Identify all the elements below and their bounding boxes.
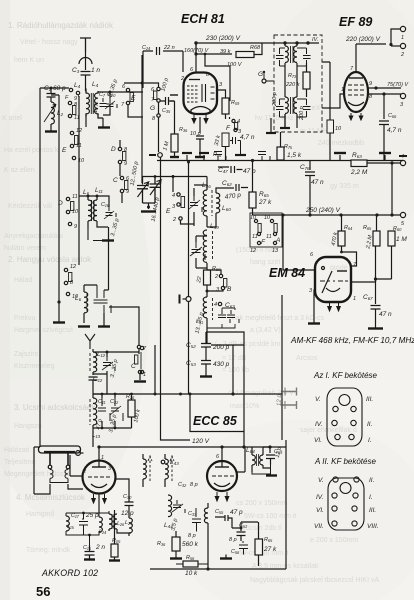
switch contact bank D 11/10/9 <box>66 197 69 200</box>
switch contact F below R59 <box>229 117 231 119</box>
wire: 100V node <box>205 54 230 101</box>
svg-text:L₂₉: L₂₉ <box>125 520 133 526</box>
caps C63 pair <box>218 310 230 323</box>
svg-text:200 p: 200 p <box>272 92 278 107</box>
svg-text:L₄: L₄ <box>74 82 81 89</box>
svg-text:11: 11 <box>252 234 258 240</box>
junction of L4 to grid line <box>86 55 144 183</box>
capacitor C59 <box>266 447 275 465</box>
resistor R36 1M <box>171 134 178 152</box>
svg-text:2: 2 <box>214 274 218 280</box>
svg-text:III.: III. <box>366 396 373 403</box>
cap on bus <box>214 152 226 161</box>
svg-text:4,7 n: 4,7 n <box>240 134 255 141</box>
svg-text:VI.: VI. <box>316 507 324 514</box>
coil L24 <box>99 517 102 532</box>
wire: triode grid left pin <box>170 94 178 96</box>
IF1 primary coil pair <box>285 46 288 63</box>
ground end of bus <box>402 160 404 162</box>
svg-text:22 n: 22 n <box>163 45 175 51</box>
svg-text:C₅₂: C₅₂ <box>186 342 196 349</box>
wire: vertical x190 <box>190 394 244 432</box>
svg-text:1: 1 <box>341 87 344 93</box>
svg-text:R₇₃: R₇₃ <box>288 73 297 79</box>
wire: vertical x155 <box>154 345 156 394</box>
socket I pinout <box>327 388 362 446</box>
mid distribution bus <box>157 160 403 162</box>
wire terminal4 node down to 250V bus <box>391 163 393 215</box>
svg-text:R₆₅: R₆₅ <box>363 225 372 231</box>
svg-text:C₃: C₃ <box>72 67 80 74</box>
svg-text:4: 4 <box>401 154 404 160</box>
svg-text:Hangszó: Hangszó <box>14 423 42 430</box>
svg-text:16 p: 16 p <box>93 102 99 113</box>
terminal 2 <box>400 43 405 48</box>
svg-text:47 n: 47 n <box>311 179 324 186</box>
ground mid bottom <box>220 557 232 559</box>
svg-text:C: C <box>131 363 136 370</box>
svg-text:8 p: 8 p <box>229 537 237 543</box>
gang common ground <box>147 206 150 209</box>
svg-text:75(70) V: 75(70) V <box>387 82 409 88</box>
wire: C34 down to band switch <box>142 51 144 88</box>
svg-text:R68: R68 <box>250 45 261 51</box>
svg-text:200 p: 200 p <box>299 106 305 121</box>
EF89 grid dashes <box>348 85 364 95</box>
ground under L4 <box>98 126 110 128</box>
switch contact bank 12/11/10 <box>70 131 73 134</box>
svg-text:C: C <box>113 177 118 184</box>
svg-text:8 p: 8 p <box>190 482 198 488</box>
svg-text:R₆₄: R₆₄ <box>344 225 352 231</box>
svg-text:I.: I. <box>368 437 372 444</box>
svg-text:R₃₆: R₃₆ <box>157 541 166 547</box>
svg-text:K ariel: K ariel <box>2 115 22 122</box>
svg-text:R₅₀: R₅₀ <box>212 266 221 272</box>
svg-text:C₄₇: C₄₇ <box>218 167 228 174</box>
capacitor C17 bars <box>79 518 88 533</box>
svg-text:Arcsos: Arcsos <box>296 355 318 362</box>
svg-text:L₄₉: L₄₉ <box>210 223 219 230</box>
wire EM84 grid from R84 via loop <box>342 252 357 266</box>
ground under L6 <box>88 229 103 241</box>
svg-text:G: G <box>258 71 263 78</box>
triode2 arrows <box>215 492 229 501</box>
svg-text:Zajszint: Zajszint <box>14 351 38 358</box>
svg-text:12 p: 12 p <box>277 394 283 406</box>
ground under L64 <box>266 474 277 476</box>
svg-text:EM 84: EM 84 <box>269 266 305 280</box>
svg-text:Teljesítmé: Teljesítmé <box>4 459 36 466</box>
svg-text:L₆₀: L₆₀ <box>222 205 231 212</box>
svg-text:L₁₁: L₁₁ <box>95 187 103 194</box>
svg-text:Hálad: Hálad <box>14 277 32 284</box>
svg-text:2: 2 <box>172 217 176 223</box>
wires of L15 block <box>66 511 109 545</box>
triode1 grid dashes <box>88 476 110 478</box>
EF89 top lead pin7 <box>355 44 357 72</box>
svg-text:Anyrekgacsanálási: Anyrekgacsanálási <box>4 233 63 240</box>
svg-text:L₁₅: L₁₅ <box>67 524 75 530</box>
svg-text:C₁₆: C₁₆ <box>101 202 110 208</box>
svg-text:27 k: 27 k <box>263 546 277 553</box>
trimmer beside L48 <box>190 196 202 212</box>
wires L13 block <box>93 394 132 428</box>
svg-text:11: 11 <box>74 115 80 121</box>
wire: left vertical bus <box>39 88 41 447</box>
wire: IF out to EF89 grid <box>322 62 330 120</box>
svg-text:10: 10 <box>264 215 271 221</box>
EF89 anode bar <box>349 77 363 79</box>
svg-text:2: 2 <box>180 76 184 82</box>
gang top wire <box>143 177 208 186</box>
svg-text:C₃₀: C₃₀ <box>123 494 132 500</box>
svg-text:V.: V. <box>318 477 324 484</box>
coil L13 <box>93 398 97 425</box>
svg-text:230 (200) V: 230 (200) V <box>205 35 241 42</box>
svg-text:11: 11 <box>266 234 272 240</box>
svg-text:(150 m-il nak: (150 m-il nak <box>236 247 277 254</box>
svg-text:hang szét: hang szét <box>250 259 280 266</box>
svg-text:1: 1 <box>353 296 356 302</box>
ground under ECH81 <box>195 156 205 158</box>
svg-text:430 p: 430 p <box>213 361 230 368</box>
wire from C52 to right vertical <box>206 332 244 447</box>
EF89 cathode arc <box>348 102 364 106</box>
capacitor C35 100p <box>161 97 175 105</box>
svg-text:= 100 kb: = 100 kb <box>222 367 249 374</box>
FM dipole big T antenna <box>44 451 75 453</box>
node dot on HT bus <box>194 41 197 44</box>
ground under C53 <box>200 375 212 377</box>
120V bus of ECC85 <box>166 446 286 448</box>
trimmer left of L49 <box>192 242 206 260</box>
svg-text:C₆₆: C₆₆ <box>388 113 397 119</box>
svg-text:IV.: IV. <box>316 494 324 501</box>
AM antenna symbol <box>80 38 91 52</box>
switch E 4/3/2 oscillator <box>177 193 180 196</box>
svg-text:250 (240) V: 250 (240) V <box>305 207 341 214</box>
tube ECH81 envelope <box>184 73 218 115</box>
switch contacts D 8/9 right col <box>118 147 121 150</box>
svg-text:C₁₅: C₁₅ <box>83 545 92 551</box>
terminal 5 <box>400 212 405 217</box>
wire from triode1 to C30 <box>115 479 130 496</box>
svg-text:B: B <box>227 286 232 293</box>
switch contact E 6/7 <box>126 88 129 91</box>
svg-text:III.: III. <box>369 507 376 514</box>
caps beside L8 <box>94 285 105 318</box>
svg-text:11: 11 <box>72 194 78 200</box>
svg-text:ECC 85: ECC 85 <box>193 414 238 428</box>
svg-text:4. Mcsalmiszlúcsok: 4. Mcsalmiszlúcsok <box>16 493 86 502</box>
svg-text:Hargmel szlvégcsé: Hargmel szlvégcsé <box>14 327 73 334</box>
svg-text:Nagybblágcsak jalcskel tbcsezc: Nagybblágcsak jalcskel tbcsezcsl HIKI vA <box>250 577 379 584</box>
svg-text:gy 335 m: gy 335 m <box>330 183 359 190</box>
ECH81 cathode arrows <box>192 115 208 123</box>
trimmer C20 <box>107 98 118 108</box>
svg-text:Hamgmő: Hamgmő <box>26 511 55 518</box>
dashed IF transformer box <box>274 35 322 132</box>
wire: antenna node into coil block <box>40 87 69 89</box>
trimmer right of L44 <box>173 500 185 513</box>
capacitor C34 22n <box>143 47 183 55</box>
svg-text:R₅₉: R₅₉ <box>231 100 240 106</box>
svg-text:3. Ucsmi adcskolcsáek: 3. Ucsmi adcskolcsáek <box>14 403 96 412</box>
svg-text:1 n: 1 n <box>91 67 100 74</box>
terminal at left of ECC85 <box>76 451 81 456</box>
ground under R38 <box>170 557 182 559</box>
svg-text:II.: II. <box>367 421 373 428</box>
EM84 target bar <box>337 270 347 272</box>
EM84 grid dashes <box>320 280 348 282</box>
svg-text:II.: II. <box>369 477 375 484</box>
triode2 cathode arc <box>214 483 230 487</box>
long mid horizontal wire <box>93 393 282 395</box>
svg-text:D: D <box>111 146 116 153</box>
svg-text:L₆₄: L₆₄ <box>246 447 255 454</box>
svg-text:2,2 M: 2,2 M <box>350 169 368 176</box>
switch contact 6/7 at grid <box>142 83 159 87</box>
ground stub on bus (right) <box>339 155 341 160</box>
switch block F/A <box>250 213 282 247</box>
svg-text:C₃₂: C₃₂ <box>178 482 187 488</box>
svg-text:VIII.: VIII. <box>367 523 379 530</box>
svg-text:2: 2 <box>82 469 86 475</box>
ground under switch C <box>134 380 146 382</box>
svg-text:IV.: IV. <box>312 37 319 43</box>
wire EM84 right pin 1 <box>351 279 376 282</box>
svg-text:L₄₃: L₄₃ <box>170 459 179 466</box>
grounds under L8 <box>78 325 90 327</box>
coil L44 <box>168 495 172 517</box>
triode1 anode bar <box>92 466 106 468</box>
svg-text:L₂₆: L₂₆ <box>117 521 125 527</box>
wire left edge to dipole <box>34 446 40 448</box>
resistor R68 <box>236 52 254 58</box>
svg-text:VII.: VII. <box>314 523 324 530</box>
svg-text:R₄₆: R₄₆ <box>213 152 222 158</box>
svg-text:R₆₅: R₆₅ <box>259 191 269 198</box>
svg-text:4: 4 <box>214 302 217 308</box>
svg-text:ECH 81: ECH 81 <box>181 12 225 26</box>
switch contact 4 / C63 <box>218 302 221 305</box>
coil L15 <box>66 516 69 531</box>
tube EM84 envelope <box>315 257 351 302</box>
tube EF89 envelope <box>344 72 368 112</box>
svg-text:2 n: 2 n <box>95 544 105 551</box>
triode1 top lead <box>98 447 100 461</box>
switch contact bank 8/11 <box>68 101 71 104</box>
ECH81 cathode arc <box>191 107 210 114</box>
svg-text:R₀₅: R₀₅ <box>112 538 121 544</box>
svg-text:12: 12 <box>70 264 76 270</box>
ground under L2 <box>45 130 57 132</box>
svg-text:240 mezkodbb: 240 mezkodbb <box>318 140 364 147</box>
svg-text:C₂₄: C₂₄ <box>142 45 150 51</box>
wires dipole to triode <box>34 447 83 494</box>
ECC85 triode 2 envelope <box>207 461 237 491</box>
IF1 secondary caps 200p <box>276 99 284 117</box>
svg-text:Megengedett hálózati: Megengedett hálózati <box>4 471 71 478</box>
coil mid small <box>204 508 208 523</box>
svg-text:22: 22 <box>196 276 203 284</box>
svg-text:10: 10 <box>78 158 85 164</box>
svg-text:hem K un: hem K un <box>14 57 44 64</box>
switch contacts C 6/9 <box>120 176 123 179</box>
ground stub on bus (2) <box>203 155 205 160</box>
svg-text:R₆₅: R₆₅ <box>264 537 273 543</box>
wires inside IF box <box>285 43 307 128</box>
svg-text:A II. KF bekötése: A II. KF bekötése <box>314 457 376 466</box>
svg-text:nak megfelelő feszt a 3 kΩ-cs: nak megfelelő feszt a 3 kΩ-cs <box>232 315 324 322</box>
svg-text:11: 11 <box>76 143 82 149</box>
svg-text:EF 89: EF 89 <box>339 15 372 29</box>
bottom bus ECC85 <box>150 568 286 570</box>
ground under C87 <box>368 327 383 329</box>
svg-text:9: 9 <box>126 189 129 195</box>
svg-text:C₅₆: C₅₆ <box>231 549 240 555</box>
svg-text:9: 9 <box>74 224 77 230</box>
transformer L26 <box>109 514 112 529</box>
svg-text:47 p: 47 p <box>230 509 243 516</box>
FM dipole small <box>85 334 95 349</box>
socket II pinout <box>328 477 364 530</box>
wire: top HT bus 230V <box>196 42 319 44</box>
wires L12 block <box>93 307 139 374</box>
trimmer C16 <box>106 207 117 217</box>
svg-text:1: 1 <box>143 372 146 378</box>
svg-text:120 V: 120 V <box>192 438 210 445</box>
svg-text:10: 10 <box>250 215 257 221</box>
svg-text:Frekvu: Frekvu <box>14 315 36 322</box>
svg-text:10: 10 <box>335 126 342 132</box>
svg-text:Tömeg: mlndk: Tömeg: mlndk <box>26 547 71 554</box>
EM84 cathode arrows <box>328 303 341 311</box>
svg-text:R₅₆: R₅₆ <box>186 555 195 561</box>
wire EM84 left pin to ground <box>314 290 315 323</box>
wire 250V to EM84 <box>283 215 316 270</box>
svg-text:V.: V. <box>315 396 321 403</box>
wires around L48 <box>181 185 208 227</box>
switch contact F9 <box>69 88 72 91</box>
svg-text:4: 4 <box>172 193 175 199</box>
ground left bus <box>53 321 65 323</box>
resistor R65 27k <box>249 192 256 208</box>
svg-text:68 p: 68 p <box>53 85 66 92</box>
wire triode1 cathode down <box>98 494 100 513</box>
svg-text:C₅₅: C₅₅ <box>215 509 224 515</box>
svg-text:Hálózati: Hálózati <box>4 447 30 454</box>
svg-text:560 k: 560 k <box>182 541 199 548</box>
tuning gang varcap AM <box>137 177 148 204</box>
svg-text:G: G <box>150 105 155 112</box>
svg-text:2: 2 <box>400 52 404 58</box>
IF1 tuning caps <box>276 48 284 66</box>
svg-text:12 p: 12 p <box>121 510 134 517</box>
EM84 cathode arc <box>326 288 340 292</box>
wire: grid leak to ground <box>170 95 178 157</box>
svg-text:e 200 x 150mm: e 200 x 150mm <box>310 537 358 544</box>
coil L29 <box>129 518 132 533</box>
IF1 secondary coil pair <box>285 97 288 114</box>
svg-text:I.: I. <box>369 494 373 501</box>
svg-text:R₃₆: R₃₆ <box>179 127 188 133</box>
terminal 1 <box>400 26 405 31</box>
svg-text:9: 9 <box>124 161 127 167</box>
wire C51 column <box>232 522 259 541</box>
capacitor C88 4,7n <box>379 94 389 161</box>
svg-text:AKKORD 102: AKKORD 102 <box>41 568 98 578</box>
ECC85 triode 1 envelope <box>83 461 116 494</box>
resistor R75 1,5k <box>277 147 284 160</box>
svg-text:1 M: 1 M <box>396 236 407 243</box>
svg-text:10: 10 <box>72 209 79 215</box>
EF89 cathode arrows <box>349 113 363 120</box>
svg-text:Klszrmeteleg: Klszrmeteleg <box>14 363 55 370</box>
resistor R46 <box>222 133 229 147</box>
phono terminal <box>186 297 191 302</box>
svg-text:12: 12 <box>250 248 256 254</box>
triode2 top lead <box>221 447 223 462</box>
svg-text:100 V: 100 V <box>227 62 243 68</box>
terminal 3 <box>400 93 405 98</box>
resistor R73 220k <box>303 72 310 89</box>
svg-text:R₆₃: R₆₃ <box>352 152 362 159</box>
svg-text:sajer ehrnkeltlak d: sajer ehrnkeltlak d <box>300 427 357 434</box>
svg-text:1: 1 <box>101 455 104 461</box>
svg-text:Az I. KF bekötése: Az I. KF bekötése <box>313 371 378 380</box>
svg-text:D: D <box>58 200 63 207</box>
ground feet of IF box <box>280 127 290 129</box>
ground stub on bus (far right) <box>384 155 386 160</box>
wire R83 to terminal 4 <box>367 162 400 164</box>
svg-text:47 n: 47 n <box>379 311 392 318</box>
switch contact bank 12/11/8/10 low <box>64 268 67 271</box>
coil L60 <box>216 193 220 213</box>
svg-text:C₁: C₁ <box>44 85 51 92</box>
svg-text:E: E <box>166 208 171 215</box>
cap on bus 2 <box>258 152 270 161</box>
svg-text:C₆₂: C₆₂ <box>222 180 232 187</box>
tuning gang varcap FM <box>150 177 161 204</box>
svg-text:C₇₆: C₇₆ <box>300 164 310 171</box>
svg-text:1. Rádióhullámgazdák nádiók: 1. Rádióhullámgazdák nádiók <box>8 21 114 30</box>
svg-text:Vétel - hossz nagy: Vétel - hossz nagy <box>20 39 78 46</box>
250V bus <box>253 214 401 216</box>
ECH81 anode lead to bus <box>195 43 197 73</box>
terminal 4 <box>400 160 405 165</box>
svg-text:Kérdezzük vál: Kérdezzük vál <box>8 203 52 210</box>
switch contact A low <box>140 346 143 349</box>
capacitor C3 1n <box>81 72 91 92</box>
svg-text:E: E <box>131 95 136 102</box>
wire: vertical from mid-bus terminal <box>161 158 191 441</box>
svg-text:C₁₇: C₁₇ <box>71 513 80 519</box>
svg-text:8 p: 8 p <box>188 533 196 539</box>
switch B 2/3 <box>219 274 222 277</box>
wire: EF89 screen to 75V <box>368 87 401 89</box>
svg-text:39 k: 39 k <box>220 49 231 55</box>
svg-text:L₂: L₂ <box>57 110 64 117</box>
triode2 grid dashes <box>212 475 234 477</box>
svg-text:4,7 n: 4,7 n <box>387 127 402 134</box>
balun coils under dipole <box>50 470 53 479</box>
ECH81 heptode grid dashes <box>187 84 215 102</box>
svg-text:5W-cs 100 mm it: 5W-cs 100 mm it <box>244 513 296 520</box>
svg-text:C₅₃: C₅₃ <box>186 360 196 367</box>
bleed lug marks <box>281 388 297 410</box>
